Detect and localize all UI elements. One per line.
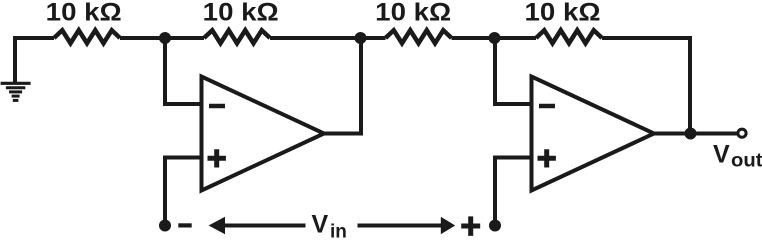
svg-text:10 kΩ: 10 kΩ — [525, 0, 601, 27]
svg-text:in: in — [330, 222, 347, 240]
svg-text:V: V — [312, 211, 329, 239]
svg-text:10 kΩ: 10 kΩ — [46, 0, 122, 27]
svg-text:10 kΩ: 10 kΩ — [203, 0, 279, 27]
svg-text:10 kΩ: 10 kΩ — [375, 0, 451, 27]
svg-text:V: V — [713, 140, 730, 168]
svg-text:out: out — [731, 151, 762, 172]
